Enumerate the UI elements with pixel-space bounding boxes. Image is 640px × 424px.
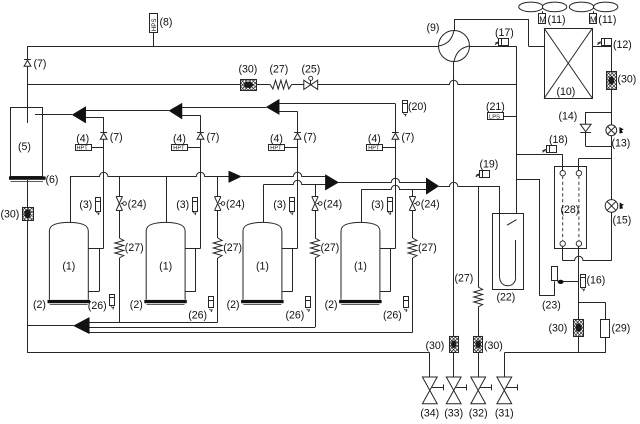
sensor 20 [403,101,408,117]
sensor 18 [542,146,557,153]
sight glass 13 [606,125,624,136]
svg-text:(24): (24) [323,199,342,211]
hand valve 25 [304,76,318,89]
wire oil bundle line 3 [89,332,412,334]
svg-text:(12): (12) [613,39,632,51]
fan motor M pair 1 [539,14,547,25]
HPT transducer 4 group 1 [76,145,104,152]
TXV 23 [517,179,579,296]
wire suction drop group 2 [166,177,168,223]
wire suction header A (groups 1-2) [70,172,229,176]
svg-text:(9): (9) [427,22,440,34]
svg-text:HPT: HPT [368,146,380,152]
oil valve 24 group 2 [215,177,225,239]
wire oil bundle line 2 [89,327,315,329]
oil sensor 26 group 4 [403,297,408,313]
svg-text:HPT: HPT [270,146,282,152]
svg-text:(27): (27) [418,242,437,254]
svg-text:(11): (11) [548,14,566,26]
svg-text:(34): (34) [420,408,439,420]
svg-text:(1): (1) [256,261,269,273]
svg-text:(31): (31) [495,408,514,420]
svg-text:(26): (26) [188,310,207,322]
flow arrow suction 1 [229,171,242,183]
HPT transducer 4 group 3 [269,145,298,152]
svg-text:(33): (33) [444,408,463,420]
suction slot pipe group 3 [282,249,298,292]
svg-text:(27): (27) [223,242,242,254]
check valve 14 bypass [580,112,611,147]
4-way reversing valve 9 [439,31,470,62]
svg-text:(27): (27) [270,64,289,76]
svg-text:HPS: HPS [151,18,158,31]
svg-text:(1): (1) [62,261,75,273]
capillary 27 group 3 [311,238,320,327]
wire bottom rail to service valve 34 [28,353,430,378]
svg-text:(13): (13) [612,138,631,150]
compressor 1 body group 2 [146,222,185,299]
condenser 10 [544,28,593,99]
filter drier 30 above valve 32 [474,336,483,377]
svg-text:(16): (16) [587,275,606,287]
svg-text:(7): (7) [401,132,414,144]
svg-text:(29): (29) [612,323,631,335]
svg-text:(26): (26) [88,300,107,312]
sensor 3 group 2 [192,198,197,216]
wire HX gas out to standpipe [517,154,563,170]
wire discharge main line to 4-way valve [28,46,439,48]
svg-text:(26): (26) [383,310,402,322]
svg-text:(3): (3) [273,199,286,211]
sight glass 15 [605,200,624,213]
check valve 7 top-left [24,46,31,107]
svg-text:(28): (28) [561,204,580,216]
fan 11 pair 1 [519,2,567,14]
svg-text:HPT: HPT [173,146,185,152]
svg-text:(7): (7) [207,132,220,144]
compressor 1 body group 3 [243,222,282,299]
compressor base bar 2 group 4 [339,300,382,305]
wire filter to sight glass 13 [611,89,613,125]
compressor base bar 2 group 1 [48,300,91,305]
flow arrow suction 3 [426,178,439,194]
wire suction header B (group 3) [264,180,326,184]
capillary 27 group 1 [115,238,124,322]
wire suction line to accumulator [439,182,500,186]
filter drier 30 right column [607,72,617,90]
filter drier 30 liquid injection [574,320,584,337]
wire liquid down to HX feed [563,212,612,261]
capillary 27 group 2 [213,238,222,322]
svg-text:(2): (2) [325,299,338,311]
svg-text:(23): (23) [542,300,561,312]
svg-text:(14): (14) [559,111,578,123]
sensor 19 [475,170,489,177]
wire between sight glasses [611,136,613,200]
compressor riser 2 with check valve 7 [197,115,204,248]
compressor 1 body group 4 [341,222,380,299]
svg-text:(27): (27) [125,242,144,254]
svg-text:(30): (30) [549,323,568,335]
svg-text:(4): (4) [76,133,89,145]
suction slot pipe group 2 [185,249,200,292]
capillary 27 oil line [270,80,291,89]
svg-text:(30): (30) [426,340,445,352]
sensor HPS (8) [150,14,158,47]
wire suction tap to valve 32 [478,186,480,287]
service valve (33) [446,377,467,404]
accumulator 22 [493,186,524,289]
svg-text:(32): (32) [469,408,488,420]
wire oil line to suction drop [318,80,517,84]
compressor riser 1 with check valve 7 [100,117,107,248]
svg-text:(7): (7) [34,58,47,70]
capillary 27 group 4 [408,238,417,333]
oil separator vessel 5 [11,107,43,177]
svg-text:(5): (5) [18,141,31,153]
svg-text:(22): (22) [497,292,516,304]
svg-text:(24): (24) [421,199,440,211]
svg-text:(3): (3) [79,199,92,211]
svg-text:M: M [539,16,546,25]
wire suction drop group 3 [263,184,265,222]
svg-text:(2): (2) [227,299,240,311]
wire condenser outlet [593,46,612,72]
oil valve 24 group 3 [312,184,322,238]
low pressure switch LPS 21 [488,113,517,121]
svg-text:(4): (4) [270,133,283,145]
svg-text:(8): (8) [160,17,173,29]
wire suction standpipe [516,46,518,221]
oil valve 24 group 4 [409,189,419,238]
service valve (34) [422,377,443,404]
sensor 12 [597,38,612,45]
compressor riser 3 with check valve 7 [294,111,301,248]
svg-text:(30): (30) [484,340,503,352]
wire valve 31 riser [504,353,579,378]
HPT transducer 4 group 2 [172,145,201,152]
flow arrow oil return [74,317,90,333]
wire suction drop group 1 [70,177,72,223]
svg-text:(6): (6) [46,174,59,186]
filter drier 30 oil line [241,80,257,91]
wire HX bottom-left to liquid line [562,246,564,260]
svg-text:(30): (30) [618,74,637,86]
svg-text:HPT: HPT [77,146,89,152]
svg-text:(15): (15) [613,215,632,227]
compressor 1 body group 1 [49,222,88,299]
svg-text:(4): (4) [368,133,381,145]
wire 4-way top to condenser [454,19,544,47]
sensor 3 group 4 [387,198,392,216]
svg-text:(21): (21) [486,101,505,113]
fan motor M pair 2 [590,14,597,25]
svg-text:(27): (27) [455,273,474,285]
wire suction header C (group 4) [362,185,427,189]
oil sensor 26 group 2 [208,297,213,313]
svg-text:(30): (30) [239,64,258,76]
wire discharge stub riser 3 [279,111,297,113]
wire discharge stub riser 1 [86,117,104,119]
HPT transducer 4 group 4 [367,145,396,152]
compressor base bar 2 group 3 [241,300,284,305]
svg-text:(27): (27) [321,242,340,254]
sensor 17 [495,38,509,45]
sensor 16 [581,275,586,292]
svg-text:(11): (11) [598,14,616,26]
wire suction header A2 [241,172,325,176]
compressor base bar 2 group 2 [144,300,187,305]
flow arrow discharge C [266,99,279,114]
svg-text:(7): (7) [110,132,123,144]
wire HX bottom-right down [578,246,580,319]
suction slot pipe group 1 [88,249,103,292]
service valve (32) [471,377,492,404]
fan 11 pair 2 [569,2,618,14]
compressor riser 4 with check valve 7 [392,104,399,249]
bypass resistor 29 [579,302,610,353]
svg-text:(2): (2) [130,299,143,311]
suction slot pipe group 4 [380,249,396,292]
wire discharge header segment D to riser 4 [279,103,395,105]
wire oil return line from separator [28,84,241,86]
oil sensor 26 group 3 [306,297,311,313]
svg-text:(3): (3) [371,199,384,211]
oil separator base bar 6 [9,176,46,181]
flow arrow discharge A [72,107,86,123]
wire discharge header segment A into vessel 5 [35,114,72,116]
svg-text:(19): (19) [480,159,499,171]
wire discharge header segment B [86,110,169,112]
service valve (31) [497,377,518,404]
svg-text:(17): (17) [495,27,514,39]
filter drier 30 above valve 33 [449,336,458,377]
flow arrow discharge B [169,103,182,119]
wire 4-way right port [470,46,517,48]
svg-text:(7): (7) [304,132,317,144]
capillary 27 suction tap [474,287,483,336]
svg-text:(2): (2) [33,299,46,311]
wire discharge stub riser 2 [182,115,201,117]
svg-text:(26): (26) [286,310,305,322]
svg-text:(20): (20) [408,101,427,113]
wire oil line to valve 25 [292,84,304,86]
wire 4-way bottom to service valve 33 [453,62,455,337]
svg-text:(4): (4) [173,133,186,145]
svg-text:(30): (30) [1,209,20,221]
wire oil return to left drop [28,325,74,327]
svg-text:(1): (1) [159,261,172,273]
svg-text:(18): (18) [549,134,568,146]
svg-text:(24): (24) [226,199,245,211]
svg-text:(1): (1) [354,261,367,273]
wire oil bundle line 1 [89,322,217,324]
filter drier 30 below vessel [22,180,33,353]
oil sensor 26 group 1 [110,295,116,310]
svg-text:(25): (25) [302,64,321,76]
wire oil line mid [256,84,270,86]
svg-text:(24): (24) [128,199,147,211]
oil valve 24 group 1 [116,177,126,239]
wire HX right top to column [579,158,612,170]
wire filter to junction [578,336,580,353]
wire discharge header segment C [182,107,266,109]
wire suction merged line [339,178,427,182]
wire suction drop group 4 [361,189,363,222]
svg-text:(10): (10) [557,86,576,98]
svg-text:LPS: LPS [489,114,500,120]
sensor 3 group 3 [289,198,294,216]
svg-text:M: M [590,16,597,25]
sensor 3 group 1 [96,198,101,216]
heat exchanger 28 [555,167,587,249]
flow arrow suction 2 [325,175,338,191]
svg-text:(3): (3) [176,199,189,211]
